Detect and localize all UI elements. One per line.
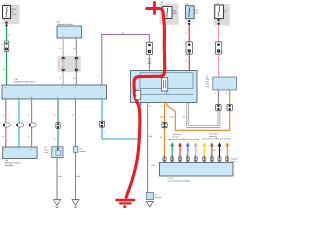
svg-text:1: 1 <box>62 35 63 38</box>
pin labels below antenna box <box>215 92 228 95</box>
wire green C16 pin4 down <box>55 99 58 147</box>
ground G2 <box>72 200 79 209</box>
wire red ACC to radio <box>186 53 189 71</box>
wire gray radio to antenna loop <box>183 90 219 126</box>
wire pink DOME down <box>219 25 223 42</box>
connector below fuse F1 <box>6 22 8 27</box>
oval connector on cyan wire <box>14 121 24 127</box>
svg-text:2: 2 <box>76 35 77 38</box>
oval connector on red wire <box>0 121 10 127</box>
arrow wire orange to amp <box>225 142 230 157</box>
svg-text:4: 4 <box>57 96 58 99</box>
shield drain marks on purple wire <box>148 46 154 71</box>
connector on gray antenna wire <box>216 104 221 111</box>
wire pink to antenna amp <box>219 53 223 77</box>
wire purple shielded C16 to radio <box>98 32 149 86</box>
noise filter box <box>52 147 63 158</box>
svg-text:2: 2 <box>217 87 218 90</box>
arrow group labels right <box>203 133 231 141</box>
svg-text:Television Camera ECU: Television Camera ECU <box>14 80 36 83</box>
label below bottom-left box <box>5 159 22 167</box>
svg-text:16: 16 <box>3 68 5 71</box>
connector on cyan wire <box>99 121 104 127</box>
svg-text:AC1: AC1 <box>170 116 174 119</box>
wire orange radio to antenna loop <box>167 90 230 130</box>
svg-text:8: 8 <box>5 86 6 89</box>
wire red ACC down <box>185 25 189 42</box>
ground G1 <box>54 200 61 209</box>
oval connector on gray wire <box>26 121 36 127</box>
svg-text:16: 16 <box>149 105 151 108</box>
svg-text:5: 5 <box>1 43 2 46</box>
svg-text:5: 5 <box>62 86 63 89</box>
stereo amplifier box <box>159 163 233 177</box>
connector on red ACC wire <box>186 42 193 54</box>
arrow wire yellow to amp <box>202 142 207 157</box>
svg-text:assembly: assembly <box>209 135 217 138</box>
svg-text:L: L <box>104 131 105 134</box>
camera E13 label <box>57 21 74 27</box>
connector 2C on green wire <box>1 41 9 52</box>
relay symbol inside radio <box>161 78 168 91</box>
fuse F1 <box>3 3 17 19</box>
wire green F1 to C16 <box>3 27 10 86</box>
wire cyan C16 pin2 down <box>16 99 19 147</box>
ground G3 <box>146 202 153 208</box>
svg-text:L: L <box>16 135 17 138</box>
connector below fuse DOME <box>218 19 220 24</box>
svg-text:31: 31 <box>160 136 162 139</box>
svg-text:10: 10 <box>30 96 32 99</box>
svg-text:1J: 1J <box>4 3 6 6</box>
connector on green wire <box>56 123 60 129</box>
fuse RADIO <box>162 7 177 19</box>
svg-text:Junction: Junction <box>79 150 86 153</box>
fuse block right gray housing <box>214 1 230 25</box>
svg-text:2: 2 <box>18 96 19 99</box>
fuse block F1 gray housing <box>3 5 20 25</box>
svg-text:1: 1 <box>152 46 153 49</box>
traced ground symbol red <box>117 200 135 208</box>
junction box on gray wire <box>73 144 86 153</box>
ground junction box <box>146 192 161 199</box>
wire cyan C16 pin7 to radio <box>99 99 102 121</box>
svg-text:7: 7 <box>101 96 102 99</box>
arrow wire black to amp <box>218 142 222 157</box>
svg-text:1: 1 <box>228 87 229 90</box>
radio receiver box <box>131 71 198 103</box>
traced circuit: battery feed <box>147 2 165 70</box>
traced circuit: radio to ground <box>126 71 165 198</box>
connector on orange antenna wire <box>227 104 232 111</box>
arrow wire cyan to amp <box>186 142 190 157</box>
junction connector block J1 <box>58 56 81 72</box>
svg-text:5: 5 <box>30 148 31 151</box>
camera E13 box <box>57 26 82 38</box>
wire pink E13 pin1 <box>60 38 63 58</box>
pin labels above amp connectors <box>163 154 227 157</box>
wire gray filter to ground <box>57 158 62 200</box>
svg-text:Filter: Filter <box>44 151 48 154</box>
svg-text:Stereo Component Amplifier: Stereo Component Amplifier <box>168 179 191 182</box>
ECU C16 label <box>14 78 36 84</box>
arrow wire green to amp <box>170 142 175 157</box>
svg-text:5: 5 <box>184 105 185 108</box>
connector on traced wire below radio <box>135 87 141 100</box>
svg-text:1: 1 <box>4 96 5 99</box>
wire gray J1 to C16 <box>74 71 77 85</box>
connector on purple wire <box>146 42 152 54</box>
arrow wire pink to amp <box>194 142 198 157</box>
wire pink J1 to C16 <box>60 71 63 85</box>
wire gray C16 pin10 down <box>28 99 31 147</box>
connector below middle fuse <box>163 19 165 24</box>
noise filter label <box>44 146 48 154</box>
wire blue stub below radio <box>140 103 142 107</box>
arrow wire red to amp <box>178 142 183 157</box>
fuse DOME <box>215 5 227 19</box>
svg-text:Ground: Ground <box>155 196 161 199</box>
svg-text:3: 3 <box>161 105 162 108</box>
svg-text:9: 9 <box>75 96 76 99</box>
svg-text:2: 2 <box>192 50 193 53</box>
fuse block middle gray housing <box>160 1 179 25</box>
connector below fuse ACC <box>188 20 190 25</box>
svg-text:L: L <box>99 114 100 117</box>
fuse ACC blue <box>185 3 199 19</box>
antenna amplifier box <box>213 77 237 90</box>
wire gray junction to ground <box>76 152 81 199</box>
antenna amplifier label <box>206 74 210 88</box>
svg-text:AC1: AC1 <box>160 116 164 119</box>
svg-text:Assembly: Assembly <box>5 164 14 167</box>
connector on orange wire <box>162 122 167 128</box>
wire gray E13 pin2 <box>74 38 77 58</box>
svg-text:W: W <box>74 47 76 50</box>
connector on pink wire <box>215 42 222 54</box>
wire orange radio to amp pin <box>160 103 165 158</box>
svg-text:receiver: receiver <box>173 136 180 139</box>
svg-text:Television Camera: Television Camera <box>57 23 74 26</box>
arrow wire brown to amp <box>210 142 216 157</box>
camera display C16 box bottom <box>3 147 37 159</box>
ECU C16 box <box>2 85 107 99</box>
label below amplifier box <box>168 177 191 182</box>
svg-text:Assy: Assy <box>206 85 210 88</box>
svg-text:3: 3 <box>100 86 101 89</box>
svg-text:V5: V5 <box>122 32 124 35</box>
svg-text:7.5A: 7.5A <box>194 12 199 15</box>
svg-text:L: L <box>16 114 17 117</box>
svg-text:W: W <box>74 77 76 80</box>
svg-text:2: 2 <box>18 148 19 151</box>
svg-text:2: 2 <box>135 87 136 90</box>
arrow group labels left <box>169 133 199 140</box>
wire cyan L-run to radio <box>102 127 138 139</box>
svg-text:6: 6 <box>75 86 76 89</box>
wire red C16 pin1 down <box>3 99 6 147</box>
svg-text:2: 2 <box>222 50 223 53</box>
wire gray radio to ground <box>148 103 156 193</box>
wire gray C16 pin9 down <box>72 99 75 147</box>
svg-text:3: 3 <box>4 148 5 151</box>
connector row above amp <box>163 157 238 163</box>
